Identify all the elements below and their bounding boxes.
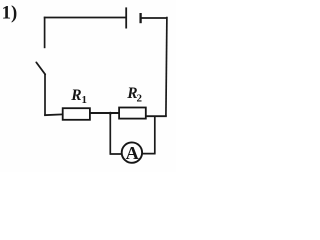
- wire top right: [141, 17, 168, 19]
- battery B1 long plate: [125, 7, 127, 28]
- resistor R1: [63, 108, 90, 120]
- wire bottom right: [146, 115, 167, 117]
- wire ammeter branch right: [142, 116, 156, 154]
- label R2: [126, 85, 142, 105]
- svg-text:1): 1): [2, 3, 18, 24]
- battery B1 short plate: [139, 13, 141, 23]
- wire right vertical: [166, 17, 167, 117]
- svg-text:A: A: [126, 143, 140, 163]
- wire left vertical lower: [44, 74, 46, 116]
- wire top-left horizontal: [44, 17, 126, 19]
- switch S1 blade: [36, 62, 45, 74]
- ammeter A1: [122, 142, 142, 162]
- resistor R2: [119, 108, 146, 119]
- svg-text:2: 2: [137, 92, 143, 104]
- wire between R1 and R2: [90, 112, 119, 114]
- label R1: [70, 87, 87, 106]
- svg-text:1: 1: [82, 94, 88, 106]
- wire bottom left: [44, 113, 62, 116]
- wire ammeter branch left: [110, 113, 123, 155]
- svg-text:R: R: [70, 87, 81, 104]
- node junction between R1 and R2: [109, 112, 112, 115]
- wire left vertical upper: [44, 17, 46, 49]
